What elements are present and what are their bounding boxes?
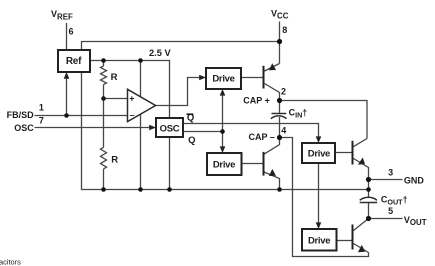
svg-text:3: 3 <box>388 167 393 177</box>
svg-text:+: + <box>129 94 134 104</box>
svg-text:CAP +: CAP + <box>243 95 270 105</box>
svg-text:R: R <box>111 72 118 83</box>
svg-text:5: 5 <box>388 206 393 216</box>
svg-text:Q: Q <box>188 135 195 146</box>
svg-text:Drive: Drive <box>213 160 235 171</box>
svg-text:R: R <box>111 155 118 166</box>
svg-text:OSC: OSC <box>160 123 180 134</box>
svg-text:8: 8 <box>282 25 287 35</box>
svg-text:6: 6 <box>69 26 74 36</box>
svg-text:2: 2 <box>281 87 286 97</box>
svg-text:2.5 V: 2.5 V <box>149 48 172 58</box>
svg-text:Drive: Drive <box>308 235 330 246</box>
svg-text:OSC: OSC <box>14 123 34 133</box>
svg-text:4: 4 <box>281 125 286 135</box>
svg-text:–: – <box>130 110 135 120</box>
svg-text:acitors: acitors <box>0 258 21 266</box>
svg-text:Drive: Drive <box>212 74 234 85</box>
svg-text:1: 1 <box>39 102 44 112</box>
svg-text:Q: Q <box>187 113 194 124</box>
svg-text:GND: GND <box>404 175 425 185</box>
svg-text:7: 7 <box>39 116 44 126</box>
svg-text:CAP –: CAP – <box>249 132 275 142</box>
svg-text:Drive: Drive <box>308 148 330 159</box>
svg-text:FB/SD: FB/SD <box>7 110 35 120</box>
svg-text:Ref: Ref <box>66 56 82 67</box>
